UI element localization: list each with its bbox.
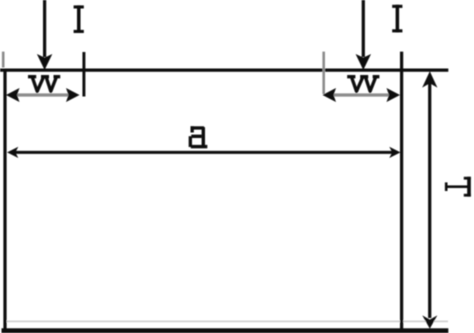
right edge <box>400 52 403 331</box>
dimension a head right <box>389 147 400 158</box>
label I1 <box>74 5 84 33</box>
ground plane bar <box>2 328 449 333</box>
tick w1 right <box>82 52 85 97</box>
dimension w2 shaft <box>333 93 389 96</box>
gray tick left <box>2 52 5 68</box>
dimension w2 head right <box>387 88 401 102</box>
feed arrow I2 head <box>356 54 371 70</box>
dimension w1 shaft <box>16 93 70 96</box>
feed arrow I2 shaft <box>362 0 365 57</box>
top edge line <box>0 68 448 71</box>
feed arrow I1 shaft <box>43 0 46 57</box>
dimension a shaft <box>14 151 393 154</box>
left edge <box>3 69 6 331</box>
feed arrow I1 head <box>37 54 52 70</box>
label I2 <box>392 5 402 33</box>
label w2 <box>347 77 379 92</box>
label T rotated <box>445 177 471 197</box>
dimension T head up <box>422 71 437 87</box>
gray tick right <box>322 52 325 94</box>
dimension a head left <box>7 147 18 158</box>
dimension T shaft <box>428 80 431 318</box>
dimension w1 head right <box>66 88 80 102</box>
faint substrate line <box>6 320 448 322</box>
dimension w2 head left <box>323 88 337 102</box>
dimension w1 head left <box>6 88 20 102</box>
dimension T head down <box>422 315 437 328</box>
label w1 <box>28 77 60 92</box>
label a <box>189 126 208 148</box>
